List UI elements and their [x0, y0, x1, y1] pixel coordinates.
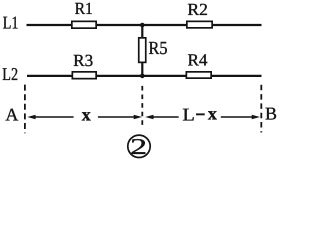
svg-text:2: 2 — [130, 134, 147, 159]
svg-text:B: B — [265, 104, 277, 124]
svg-text:x: x — [208, 104, 217, 124]
svg-text:L2: L2 — [2, 64, 18, 84]
svg-text:R4: R4 — [188, 50, 208, 69]
svg-text:R5: R5 — [149, 38, 168, 58]
svg-text:A: A — [5, 104, 18, 124]
svg-text:L: L — [182, 104, 195, 124]
svg-text:R3: R3 — [73, 51, 93, 70]
svg-text:L1: L1 — [3, 12, 19, 32]
svg-text:R2: R2 — [187, 0, 208, 19]
svg-text:x: x — [82, 105, 91, 125]
svg-text:R1: R1 — [75, 0, 93, 18]
